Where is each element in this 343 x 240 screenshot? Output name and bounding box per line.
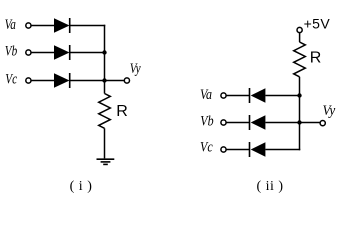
resistor R (ii) bbox=[294, 42, 306, 77]
diode D2 bbox=[54, 45, 70, 60]
svg-text:R: R bbox=[116, 103, 128, 120]
input terminal Va (i) bbox=[26, 23, 31, 28]
junction at Vb row (i) bbox=[102, 50, 106, 54]
diode D6 bbox=[250, 142, 266, 157]
input terminal Vc (i) bbox=[26, 78, 31, 83]
svg-text:( i ): ( i ) bbox=[70, 179, 93, 194]
+5V supply terminal (ii) bbox=[297, 27, 302, 32]
wire resistor to bus (ii) bbox=[299, 77, 301, 96]
wire +5V to resistor (ii) bbox=[299, 33, 301, 42]
wire diode D4 to bus bbox=[265, 95, 299, 97]
svg-text:Vy: Vy bbox=[323, 102, 336, 119]
junction at Va row (ii) bbox=[297, 93, 301, 97]
svg-text:Vb: Vb bbox=[5, 42, 18, 59]
wire Vb terminal to diode D2 bbox=[31, 52, 54, 54]
svg-text:Vy: Vy bbox=[130, 59, 141, 76]
diode D5 bbox=[250, 115, 266, 130]
svg-text:( ii ): ( ii ) bbox=[256, 179, 283, 194]
junction at Vc row (i) bbox=[102, 78, 106, 82]
diode D1 bbox=[54, 18, 70, 33]
input terminal Vb (i) bbox=[26, 50, 31, 55]
wire diode D1 to bus bbox=[70, 25, 106, 27]
input terminal Va (ii) bbox=[221, 93, 226, 98]
diode D3 bbox=[54, 73, 70, 88]
wire Vc terminal to diode D3 bbox=[31, 80, 54, 82]
svg-text:Vc: Vc bbox=[200, 138, 213, 155]
svg-text:+5V: +5V bbox=[304, 16, 331, 32]
wire diode D6 to bus bbox=[265, 149, 300, 151]
wire to output terminal (ii) bbox=[300, 122, 321, 124]
input terminal Vb (ii) bbox=[221, 120, 226, 125]
wire Vc terminal to diode D6 bbox=[226, 149, 249, 151]
output terminal Vy (ii) bbox=[320, 121, 325, 126]
resistor R (i) bbox=[99, 94, 111, 129]
svg-text:Vb: Vb bbox=[200, 112, 214, 129]
wire output bus (i) bbox=[104, 25, 106, 94]
wire Vb terminal to diode D5 bbox=[226, 122, 249, 124]
svg-text:R: R bbox=[310, 50, 322, 67]
wire Va terminal to diode D4 bbox=[226, 95, 249, 97]
wire diode D5 to bus bbox=[265, 122, 299, 124]
svg-text:Va: Va bbox=[200, 86, 212, 103]
svg-text:Va: Va bbox=[5, 15, 17, 32]
junction at Vb row (ii) bbox=[297, 120, 301, 124]
svg-text:Vc: Vc bbox=[5, 70, 17, 87]
wire diode D2 to bus bbox=[70, 52, 105, 54]
wire output bus (ii) bbox=[299, 96, 301, 151]
output terminal Vy (i) bbox=[124, 78, 129, 83]
wire diode D3 to bus bbox=[70, 80, 105, 82]
wire resistor to ground (i) bbox=[104, 128, 106, 158]
input terminal Vc (ii) bbox=[221, 147, 226, 152]
wire to output terminal (i) bbox=[105, 80, 125, 82]
ground (i) bbox=[97, 159, 115, 164]
diode D4 bbox=[250, 88, 266, 103]
wire Va terminal to diode D1 bbox=[31, 25, 54, 27]
